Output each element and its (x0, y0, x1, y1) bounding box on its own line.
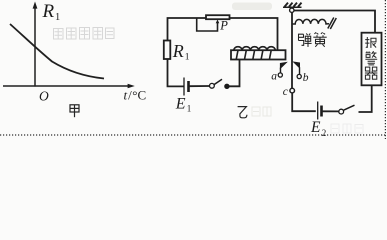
switch S2 (open) (339, 105, 355, 114)
smear (decorative) (232, 3, 272, 11)
graph y-axis (33, 2, 38, 87)
label 弹簧 (spring) (299, 32, 327, 47)
watermark (decorative) (54, 28, 115, 40)
svg-text:1: 1 (185, 53, 190, 63)
svg-text:O: O (39, 89, 49, 104)
wire: pivot to alarm box (top) (294, 11, 375, 33)
contact a (278, 62, 286, 77)
rheostat P slider arm (197, 18, 220, 31)
wire: switch S1 to coil (up right) (229, 60, 240, 86)
label E2 (310, 119, 326, 138)
svg-text:t/°C: t/°C (124, 88, 147, 103)
battery E2 (318, 102, 322, 120)
svg-text:R: R (172, 41, 184, 61)
svg-text:2: 2 (322, 128, 327, 138)
wire: battery to switch S1 (189, 85, 210, 87)
label t/°C (124, 88, 147, 103)
svg-text:1: 1 (55, 12, 60, 23)
svg-text:E: E (310, 119, 321, 136)
electromagnet coil core (231, 50, 286, 59)
terminal c (290, 88, 295, 93)
svg-text:E: E (175, 96, 186, 113)
spring (292, 19, 329, 24)
label 甲 (graph caption) (70, 105, 79, 117)
svg-text:c: c (283, 86, 288, 98)
armature (291, 12, 293, 88)
page border dotted bottom (0, 134, 387, 136)
label 乙 (circuit caption) (238, 107, 247, 118)
wire: left side of circuit 乙 (resistor to battery corner) (168, 59, 185, 86)
watermark bottom right (decorative) (331, 124, 363, 133)
curve R1 vs t (10, 24, 104, 79)
resistor R1 (thermistor) (164, 41, 171, 60)
wire: switch S2 to alarm box (359, 86, 372, 113)
contact b (294, 62, 302, 79)
svg-text:1: 1 (187, 104, 192, 114)
svg-text:R: R (42, 1, 55, 22)
wire: battery E2 to switch S2 (322, 110, 339, 112)
svg-text:a: a (271, 70, 277, 82)
switch S1 (open) (210, 79, 230, 88)
wire: terminal c down to bottom wire (292, 93, 316, 111)
pivot (290, 8, 294, 12)
graph x-axis (3, 84, 135, 89)
alarm box (报警器) (362, 33, 382, 86)
page border dotted right (384, 0, 386, 139)
wire: top of circuit 乙 (left segment) (168, 18, 207, 41)
svg-text:b: b (303, 72, 309, 84)
spring anchor ticks (328, 18, 337, 30)
label E1 (175, 96, 192, 114)
smudge right of caption (decorative) (252, 107, 271, 116)
battery E1 (184, 78, 189, 96)
fixed support (hatched) (283, 3, 302, 8)
electromagnet winding (234, 47, 275, 60)
label R1 (circuit) (172, 41, 190, 63)
rheostat P body (206, 15, 230, 19)
svg-text:P: P (219, 18, 228, 32)
label 报警器 (365, 37, 378, 79)
wire: top of circuit 乙 (right segment) (230, 18, 278, 50)
label R1 (y-axis) (42, 1, 61, 23)
